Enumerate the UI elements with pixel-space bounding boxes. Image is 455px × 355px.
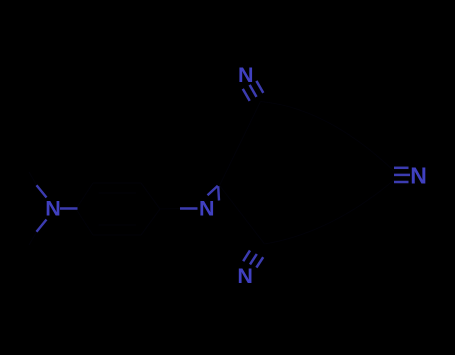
benzene ring edge C5-C6 (bottom, near-invisible dark) [93, 234, 141, 236]
methyl bond upper far segment (near-invisible dark) [29, 172, 37, 186]
benzene ring edge C2-C3 (top, near-invisible dark) [93, 182, 141, 184]
bond N(CH3)2 to ring C1 (bright stub) [60, 207, 78, 210]
methyl bond CH3 upper bright stub [37, 185, 47, 197]
top nitrile triple bond stroke left [243, 89, 250, 101]
bottom nitrile triple bond stroke right [256, 257, 263, 267]
methyl bond lower far segment (near-invisible dark) [29, 231, 37, 245]
benzene ring edge C1-C2 (upper left slant, near-invisible dark) [76, 183, 93, 209]
bottom nitrile triple bond stroke left [243, 250, 250, 261]
right nitrile triple bond stroke bottom [394, 181, 409, 184]
svg-text:N: N [237, 264, 253, 288]
bond ring C4 to imine N dark middle segment [160, 208, 181, 211]
right nitrile triple bond stroke top [394, 167, 409, 170]
curved bond top nitrile C to right nitrile C (near-invisible dark) [261, 102, 395, 172]
benzene ring inner double bond line top (near-invisible dark) [99, 192, 137, 194]
bond ring C4 to imine N (bright stub) [180, 207, 198, 210]
bond imine C to top nitrile C (near-invisible dark) [220, 102, 261, 186]
svg-text:N: N [238, 63, 254, 87]
svg-text:N: N [410, 162, 427, 188]
top nitrile triple bond stroke middle [250, 85, 257, 97]
right nitrile triple bond stroke middle [394, 174, 410, 177]
svg-text:N: N [199, 197, 215, 221]
bond imine C to bottom nitrile C (near-invisible dark) [220, 186, 265, 245]
benzene ring edge C3-C4 (upper right slant, near-invisible dark) [141, 183, 160, 209]
svg-text:N: N [45, 197, 61, 221]
curved bond bottom nitrile C to right nitrile C (near-invisible dark) [265, 180, 395, 244]
benzene ring edge C6-C1 (lower left slant, near-invisible dark) [76, 209, 93, 235]
bottom nitrile triple bond stroke middle [250, 254, 257, 264]
imine double bond N=C stroke 2 [217, 186, 220, 200]
top nitrile triple bond stroke right [256, 81, 263, 93]
methyl bond CH3 lower bright stub [37, 220, 47, 232]
imine double bond N=C stroke 1 [208, 186, 218, 196]
benzene ring inner double bond line bottom (near-invisible dark) [99, 224, 137, 226]
benzene ring edge C4-C5 (lower right slant, near-invisible dark) [141, 209, 160, 235]
